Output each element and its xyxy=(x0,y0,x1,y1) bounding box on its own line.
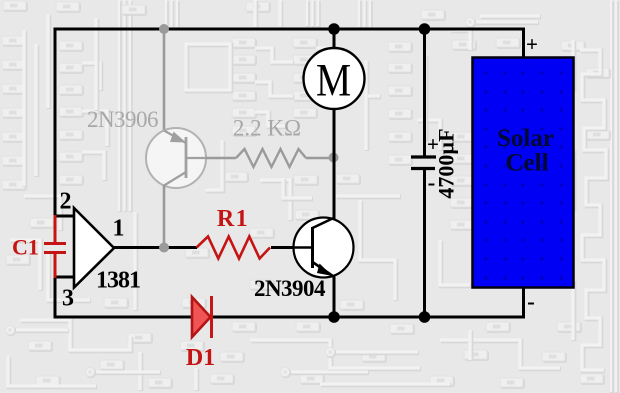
svg-text:2: 2 xyxy=(60,189,72,215)
svg-text:4700µF: 4700µF xyxy=(434,128,459,198)
svg-text:Cell: Cell xyxy=(505,150,548,177)
junction dot top motor xyxy=(328,23,340,35)
junction dot top cap branch xyxy=(419,23,431,35)
transistor Q1 2N3906 xyxy=(146,128,206,188)
resistor R1 xyxy=(197,237,271,259)
svg-text:2.2 KΩ: 2.2 KΩ xyxy=(233,116,301,141)
wire R1 to 2N3904 base xyxy=(271,246,295,249)
motor M1 xyxy=(304,48,365,109)
pin label 2 xyxy=(60,189,72,215)
label minus capacitor xyxy=(428,170,436,195)
svg-text:2N3906: 2N3906 xyxy=(87,107,158,132)
wire 2N3906 emitter from top rail (gray) xyxy=(163,29,166,131)
svg-text:R1: R1 xyxy=(217,206,249,232)
label plus solar xyxy=(526,32,538,56)
wire motor to 2N3904 collector xyxy=(333,108,336,222)
svg-text:1381: 1381 xyxy=(96,268,140,294)
junction dot gray top xyxy=(159,24,169,34)
label 1381 xyxy=(96,268,140,294)
junction dot gray on motor wire xyxy=(329,153,339,163)
wire op-amp output to R1 xyxy=(113,246,197,249)
capacitor C1 xyxy=(44,215,66,278)
pin label 1 xyxy=(113,216,125,242)
label R1 xyxy=(217,206,249,232)
transistor Q2 2N3904 xyxy=(294,218,354,278)
junction dot bottom cap branch xyxy=(419,311,431,323)
wire 2N3906 collector down to output node (gray) xyxy=(163,185,166,248)
wire pin2 stub xyxy=(55,215,75,218)
svg-text:2N3904: 2N3904 xyxy=(254,276,326,301)
junction dot bottom motor branch xyxy=(328,311,340,323)
svg-text:M: M xyxy=(316,54,351,106)
label plus capacitor xyxy=(427,132,439,156)
label 2N3906 xyxy=(87,107,158,132)
pin label 3 xyxy=(62,286,74,312)
wire 2N3904 emitter to bottom rail xyxy=(333,277,336,318)
svg-text:+: + xyxy=(526,32,538,56)
label 4700uF (rotated) xyxy=(434,128,459,198)
wire top rail to motor xyxy=(333,29,336,50)
label 2.2 KOhm xyxy=(233,116,301,141)
wire pin3 stub xyxy=(55,276,75,279)
label D1 xyxy=(186,345,215,371)
diode D1 xyxy=(192,296,212,338)
svg-text:C1: C1 xyxy=(12,235,39,260)
svg-text:3: 3 xyxy=(62,286,74,312)
wire 2.2K to motor wire (gray) xyxy=(306,157,331,159)
wire 2N3906 base to 2.2K resistor (gray) xyxy=(206,157,236,159)
wire top rail and left rail upper segment xyxy=(55,29,524,216)
svg-text:-: - xyxy=(527,289,535,314)
label 2N3904 xyxy=(254,276,326,301)
op-amp U1 1381 xyxy=(74,208,114,288)
wire capacitor to bottom rail xyxy=(423,169,426,318)
capacitor C2 4700uF plates xyxy=(411,157,436,169)
junction dot gray on output wire xyxy=(159,243,169,253)
svg-text:D1: D1 xyxy=(186,345,215,371)
svg-text:1: 1 xyxy=(113,216,125,242)
svg-text:Solar: Solar xyxy=(497,125,554,152)
label minus solar xyxy=(527,289,535,314)
wire top rail to capacitor xyxy=(423,29,426,156)
resistor 2.2 KOhm (gray) xyxy=(236,149,306,167)
wire bottom rail, left lower segment and solar cell drop xyxy=(55,277,524,317)
solar cell panel xyxy=(473,58,574,288)
label C1 xyxy=(12,235,39,260)
